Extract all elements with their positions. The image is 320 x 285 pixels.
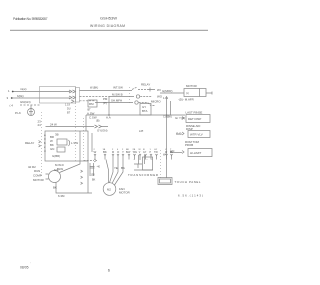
- svg-text:m(w): m(w): [20, 87, 26, 91]
- wire row2: [80, 95, 111, 97]
- motor symbol row2: [136, 95, 139, 98]
- svg-text:BTA: BTA: [142, 109, 147, 113]
- svg-text:GSH53W: GSH53W: [100, 16, 118, 20]
- vertical feed to bus: [108, 97, 110, 115]
- vertical x167: [166, 96, 168, 160]
- svg-text:W-: W-: [163, 153, 166, 157]
- connector J3 chevron: [71, 100, 74, 103]
- svg-text:TOUCH PANEL: TOUCH PANEL: [175, 180, 201, 184]
- svg-text:LPI: LPI: [139, 129, 144, 133]
- svg-text:G(MFR): G(MFR): [162, 89, 172, 93]
- svg-text:BK: BK: [53, 186, 57, 190]
- svg-text:HI-LIMIT: HI-LIMIT: [190, 151, 201, 155]
- motor bottom wire: [56, 183, 92, 194]
- svg-text:6.56.(1143): 6.56.(1143): [178, 194, 203, 198]
- inner box: [57, 139, 67, 145]
- ground wire dashed: [20, 104, 40, 106]
- svg-text:-(D)- M.AFR: -(D)- M.AFR: [178, 98, 194, 102]
- svg-text:MOTOR: MOTOR: [33, 178, 44, 182]
- connector J2 chevrons: [69, 96, 76, 99]
- svg-text:RUN: RUN: [34, 169, 40, 173]
- ground stub: [30, 105, 32, 109]
- relay contact: [147, 88, 155, 92]
- header texts: [13, 16, 125, 28]
- svg-text:GN: GN: [50, 147, 54, 151]
- drop left: [106, 160, 109, 184]
- svg-text:BT: BT: [67, 112, 71, 115]
- header rule: [10, 29, 208, 31]
- wire row1 top: [80, 90, 133, 92]
- fan motor circle: [103, 183, 116, 196]
- svg-text:Publication No. 5995532657: Publication No. 5995532657: [13, 17, 48, 21]
- svg-text:INT.SW: INT.SW: [113, 86, 123, 90]
- svg-text:b(bk): b(bk): [17, 94, 24, 98]
- wire L1: [13, 91, 70, 93]
- drops to transformer: [134, 159, 152, 162]
- dashed link rows: [129, 87, 131, 104]
- svg-text:MICRO: MICRO: [151, 100, 161, 104]
- svg-text:GN: GN: [170, 149, 174, 153]
- svg-text:COMP: COMP: [33, 174, 42, 178]
- svg-text:LAST RINSE: LAST RINSE: [186, 111, 203, 115]
- svg-text:GN(GN): GN(GN): [20, 100, 31, 104]
- label row ticks: [95, 156, 172, 160]
- svg-text:W.(BK): W.(BK): [90, 86, 98, 90]
- svg-text:(B): (B): [96, 119, 100, 123]
- svg-text:M.SW B: M.SW B: [112, 93, 123, 97]
- switch S1: [132, 87, 146, 90]
- svg-text:A.SW: A.SW: [87, 112, 95, 116]
- left small leads: [46, 174, 49, 179]
- console rect: [45, 131, 88, 161]
- svg-text:L.SW: L.SW: [71, 141, 78, 145]
- svg-text:24 W: 24 W: [50, 123, 57, 127]
- svg-text:RELAY: RELAY: [25, 141, 34, 145]
- svg-text:BK: BK: [92, 179, 96, 182]
- vertical x95: [91, 133, 93, 152]
- svg-text:GY(GN): GY(GN): [97, 129, 107, 133]
- svg-text:TRANSFORMER: TRANSFORMER: [128, 173, 158, 177]
- symbol row3: [135, 101, 138, 104]
- drops to fan motor: [110, 160, 124, 186]
- inner dashes: [75, 103, 77, 161]
- svg-text:GY: GY: [143, 152, 147, 154]
- sub line: [46, 126, 109, 128]
- chevrons on connector: [81, 170, 83, 184]
- svg-text:08/05: 08/05: [20, 266, 29, 270]
- svg-text:DET DISP: DET DISP: [188, 117, 201, 121]
- dashed col right of transformer: [160, 150, 162, 178]
- footer: [20, 263, 111, 273]
- motor box U2: [184, 89, 206, 97]
- svg-text:(x): (x): [186, 93, 189, 95]
- svg-text:3B: 3B: [55, 133, 59, 137]
- small box RM: [88, 100, 97, 107]
- wire N: [11, 97, 70, 99]
- right stack box2: [188, 131, 210, 138]
- bus line: [86, 115, 185, 131]
- svg-text:MOTOR: MOTOR: [119, 191, 130, 195]
- connector boundary dashed mid: [83, 118, 85, 158]
- svg-text:100: 100: [91, 174, 96, 177]
- svg-text:(P): (P): [103, 101, 107, 105]
- svg-text:PROB: PROB: [185, 143, 193, 147]
- svg-text:DU: DU: [67, 108, 71, 111]
- svg-text:Sta: Sta: [54, 168, 59, 172]
- wire row3: [80, 100, 96, 102]
- dashed jumper: [84, 160, 95, 162]
- vertical x88 down: [87, 161, 89, 193]
- svg-text:WTR VLV: WTR VLV: [190, 133, 203, 137]
- svg-text:WI: WI: [157, 88, 161, 92]
- svg-text:( 4: ( 4: [10, 104, 14, 108]
- svg-text:T/R: T/R: [154, 152, 158, 154]
- svg-text:RELAY: RELAY: [141, 83, 150, 87]
- svg-text:P.LK: P.LK: [15, 111, 21, 115]
- svg-text:WIRING DIAGRAM: WIRING DIAGRAM: [90, 24, 125, 28]
- right stack box1: [186, 115, 210, 123]
- svg-text:6.3M: 6.3M: [58, 194, 65, 198]
- svg-text:GY: GY: [154, 149, 158, 151]
- svg-text:YE: YE: [114, 166, 118, 170]
- svg-text:24: 24: [38, 123, 42, 127]
- ground symbol: [28, 109, 35, 116]
- svg-text:M2: M2: [107, 188, 111, 192]
- svg-text:BA: BA: [121, 166, 125, 170]
- diagram labels: [7, 83, 204, 199]
- wire rect-to-motor: [60, 131, 81, 173]
- svg-text:SH.MFH: SH.MFH: [111, 99, 122, 103]
- right stack box3: [188, 149, 212, 157]
- svg-text:CU(BK): CU(BK): [163, 115, 172, 119]
- svg-text:WO: WO: [157, 95, 163, 99]
- label row chevrons: [94, 154, 173, 156]
- svg-text:DISP: DISP: [186, 127, 193, 131]
- svg-text:A.A: A.A: [106, 116, 111, 120]
- svg-text:G(BR): G(BR): [52, 154, 60, 158]
- svg-text:Gr Y(D): Gr Y(D): [175, 116, 185, 120]
- connector boundary dashed left lower: [41, 112, 43, 178]
- connector housing P1: [40, 87, 76, 104]
- svg-text:1.19: 1.19: [65, 104, 70, 107]
- transformer T1: [134, 155, 153, 170]
- svg-text:MOTOR: MOTOR: [186, 84, 197, 88]
- main motor circle: [49, 171, 61, 183]
- terminal ticks: [12, 91, 14, 93]
- small marks left of transformer: [90, 163, 95, 176]
- svg-text:1.19: 1.19: [163, 96, 169, 100]
- connector J1 chevrons: [69, 90, 76, 93]
- svg-text:O,C: O,C: [176, 132, 181, 136]
- svg-text:TAN: TAN: [133, 151, 138, 154]
- small box on bus: [140, 104, 151, 116]
- touch panel box: [158, 178, 172, 185]
- svg-text:RM: RM: [89, 102, 94, 106]
- motor box wires: [160, 92, 212, 95]
